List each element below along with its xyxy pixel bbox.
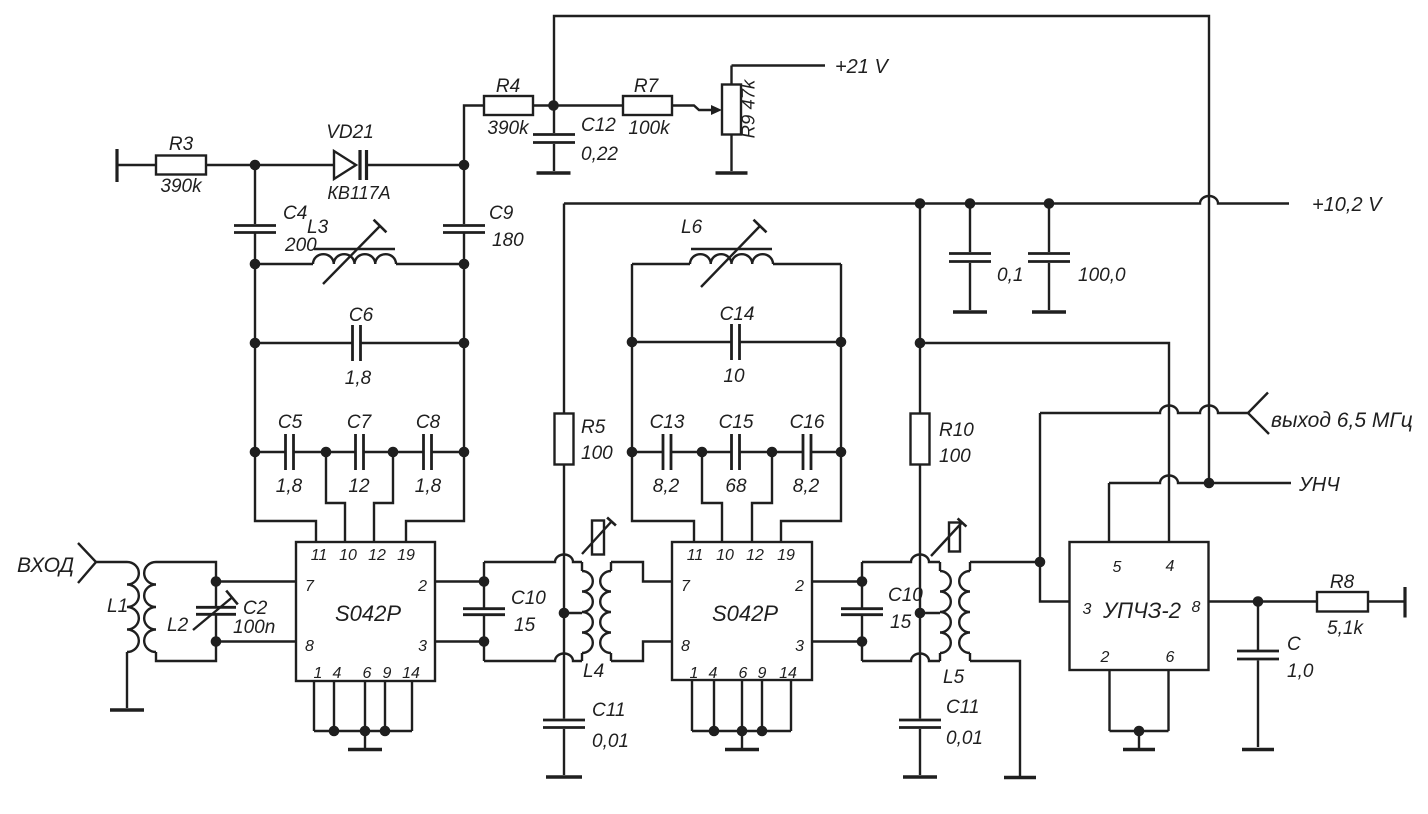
node — [627, 447, 638, 458]
ground — [546, 775, 582, 778]
svg-text:C16: C16 — [790, 412, 825, 433]
svg-text:7: 7 — [305, 578, 315, 595]
svg-text:8,2: 8,2 — [793, 476, 820, 497]
svg-text:C13: C13 — [650, 412, 685, 433]
wire — [255, 451, 285, 453]
svg-text:6: 6 — [739, 665, 748, 682]
node — [767, 447, 778, 458]
wire (to pin 7) — [216, 580, 296, 582]
wire — [463, 165, 465, 224]
svg-text:VD21: VD21 — [326, 122, 374, 143]
svg-text:C7: C7 — [347, 412, 373, 433]
svg-text:1,8: 1,8 — [415, 476, 442, 497]
node — [329, 726, 340, 737]
node — [1253, 596, 1264, 607]
svg-text:C8: C8 — [416, 412, 441, 433]
svg-text:2: 2 — [794, 578, 804, 595]
svg-text:1,8: 1,8 — [345, 368, 372, 389]
node — [915, 338, 926, 349]
node — [1204, 478, 1215, 489]
svg-text:68: 68 — [725, 476, 747, 497]
node — [250, 259, 261, 270]
svg-text:2: 2 — [417, 578, 427, 595]
wire — [862, 654, 940, 661]
svg-text:14: 14 — [402, 665, 420, 682]
svg-text:6: 6 — [363, 665, 372, 682]
node — [459, 447, 470, 458]
wire (to pin 10) — [702, 452, 722, 543]
svg-text:10: 10 — [716, 547, 734, 564]
wire — [564, 612, 582, 614]
wire — [672, 451, 732, 453]
svg-text:C9: C9 — [489, 203, 514, 224]
capacitor C4 — [234, 203, 317, 256]
node — [388, 447, 399, 458]
wire — [840, 264, 842, 452]
capacitor C11 (2nd) — [899, 613, 983, 775]
node — [857, 576, 868, 587]
wire — [970, 661, 1020, 776]
svg-text:8: 8 — [1192, 599, 1201, 616]
capacitor C5 — [276, 412, 303, 497]
svg-text:200: 200 — [284, 235, 317, 256]
wire — [812, 451, 842, 453]
capacitor C — [1237, 602, 1314, 748]
wire — [740, 451, 802, 453]
variable capacitor C2 — [193, 582, 275, 642]
wire — [396, 263, 464, 265]
terminal выход — [1248, 393, 1269, 435]
svg-text:4: 4 — [709, 665, 718, 682]
node — [836, 337, 847, 348]
svg-text:0,01: 0,01 — [946, 728, 983, 749]
svg-text:C4: C4 — [283, 203, 307, 224]
node — [250, 447, 261, 458]
wire (to pin 11) — [632, 452, 694, 543]
ground — [1123, 731, 1155, 750]
svg-text:1: 1 — [690, 665, 699, 682]
wire — [484, 555, 582, 563]
resistor R3 — [156, 134, 206, 197]
resistor R8 — [1317, 572, 1368, 639]
wire — [368, 164, 464, 166]
svg-text:100: 100 — [581, 443, 613, 464]
ground — [1032, 310, 1066, 313]
resistor R7 — [623, 76, 672, 139]
capacitor 0,1 — [949, 204, 1023, 311]
capacitor C10 — [463, 562, 546, 661]
svg-text:1,8: 1,8 — [276, 476, 303, 497]
wire (выход 6,5 МГц net) — [1040, 406, 1248, 562]
node — [321, 447, 332, 458]
label ВХОД — [17, 554, 74, 577]
svg-text:390k: 390k — [160, 176, 203, 197]
svg-text:6: 6 — [1166, 649, 1175, 666]
svg-text:R9 47k: R9 47k — [738, 78, 759, 138]
svg-text:10: 10 — [339, 547, 357, 564]
node — [250, 160, 261, 171]
ground — [953, 310, 987, 313]
svg-text:C5: C5 — [278, 412, 303, 433]
node — [459, 160, 470, 171]
svg-text:4: 4 — [333, 665, 342, 682]
resistor R10 — [911, 204, 975, 614]
label +10,2 V — [1312, 194, 1383, 216]
svg-text:C11: C11 — [946, 697, 979, 718]
label +21 V — [835, 56, 889, 78]
wire (to pin 12) — [752, 452, 772, 543]
svg-text:C14: C14 — [720, 304, 755, 325]
wire — [432, 451, 464, 453]
svg-text:8: 8 — [305, 638, 314, 655]
svg-text:15: 15 — [890, 612, 912, 633]
ground — [716, 171, 748, 174]
svg-text:R5: R5 — [581, 417, 606, 438]
transformer L4 primary — [582, 562, 593, 661]
wire — [463, 343, 465, 452]
svg-text:19: 19 — [397, 547, 415, 564]
wire — [255, 263, 313, 265]
capacitor C15 — [719, 412, 754, 497]
wire — [464, 106, 484, 166]
tuning core of L5 — [931, 518, 966, 556]
wire +21V — [732, 64, 826, 66]
capacitor C8 — [415, 412, 442, 497]
wire — [463, 234, 465, 265]
svg-text:10: 10 — [723, 366, 745, 387]
wire — [294, 451, 355, 453]
node — [709, 726, 720, 737]
wire (pins 2,6 bus) — [1110, 670, 1169, 731]
IC U2 S042P — [672, 542, 812, 682]
IC U3 УПЧЗ-2 — [1070, 542, 1209, 670]
potentiometer R9 47k — [722, 66, 759, 172]
svg-text:15: 15 — [514, 615, 536, 636]
capacitor C11 — [543, 613, 629, 775]
svg-text:C6: C6 — [349, 305, 374, 326]
svg-text:9: 9 — [383, 665, 392, 682]
wire — [812, 640, 862, 642]
svg-text:S042P: S042P — [335, 601, 401, 626]
wire — [484, 654, 582, 661]
capacitor C13 — [650, 412, 685, 497]
node — [459, 259, 470, 270]
node — [627, 337, 638, 348]
svg-text:12: 12 — [368, 547, 386, 564]
svg-text:0,1: 0,1 — [997, 265, 1023, 286]
capacitor C9 — [443, 203, 524, 251]
node — [836, 447, 847, 458]
svg-text:R10: R10 — [939, 420, 974, 441]
wire — [533, 104, 623, 106]
svg-text:5,1k: 5,1k — [1327, 618, 1364, 639]
svg-text:R3: R3 — [169, 134, 194, 155]
node — [1035, 557, 1046, 568]
wire — [435, 580, 484, 582]
svg-text:14: 14 — [779, 665, 797, 682]
svg-text:S042P: S042P — [712, 601, 778, 626]
inductor L6 (tunable) — [681, 217, 773, 287]
svg-text:C15: C15 — [719, 412, 754, 433]
inductor L1 — [107, 562, 139, 708]
terminal (input to R3) — [115, 149, 118, 182]
inductor L2 — [144, 562, 188, 652]
wire — [970, 561, 1040, 563]
terminal (R8 output) — [1403, 587, 1406, 618]
svg-text:100: 100 — [939, 446, 971, 467]
node — [965, 198, 976, 209]
wire — [862, 555, 940, 563]
wire (to pin 19) — [781, 452, 841, 543]
wire — [1368, 600, 1405, 602]
resistor R4 — [484, 76, 533, 139]
wire (AFC feedback line) — [554, 16, 1209, 483]
node — [211, 576, 222, 587]
ground — [725, 731, 759, 750]
svg-text:L1: L1 — [107, 596, 128, 617]
node — [459, 338, 470, 349]
svg-text:5: 5 — [1113, 559, 1122, 576]
node — [697, 447, 708, 458]
label выход 6,5 МГц — [1271, 409, 1413, 432]
transformer L4 secondary — [583, 562, 611, 682]
wire (УНЧ net) — [1109, 476, 1291, 543]
node — [1044, 198, 1055, 209]
ground — [537, 171, 571, 174]
svg-text:0,01: 0,01 — [592, 731, 629, 752]
wire — [812, 580, 862, 582]
svg-text:КВ117А: КВ117А — [327, 183, 390, 203]
ground — [903, 775, 937, 778]
node — [479, 576, 490, 587]
svg-text:3: 3 — [1083, 601, 1092, 618]
IC U1 S042P — [296, 542, 435, 682]
ground — [110, 708, 144, 711]
wire (to pin 4) — [920, 343, 1169, 542]
node — [548, 100, 559, 111]
wire — [463, 264, 465, 343]
power rail +10,2 V — [564, 196, 1289, 203]
svg-text:1: 1 — [314, 665, 323, 682]
node — [479, 636, 490, 647]
svg-text:L5: L5 — [943, 667, 965, 688]
svg-text:C2: C2 — [243, 598, 268, 619]
svg-text:4: 4 — [1166, 558, 1175, 575]
wire (to pin 8) — [216, 640, 296, 642]
svg-text:12: 12 — [746, 547, 764, 564]
svg-text:R4: R4 — [496, 76, 520, 97]
capacitor 100,0 — [1028, 204, 1126, 311]
varicap diode VD21 KB117A — [326, 122, 390, 203]
terminal ВХОД — [78, 543, 96, 583]
svg-text:100n: 100n — [233, 617, 275, 638]
svg-text:УНЧ: УНЧ — [1298, 474, 1340, 496]
wire (to pin 19) — [406, 452, 464, 543]
wire (pin 8 output) — [1209, 600, 1318, 602]
svg-text:11: 11 — [687, 547, 704, 564]
svg-text:L2: L2 — [167, 615, 189, 636]
wire (to pin 10) — [326, 452, 345, 543]
wire — [611, 562, 672, 582]
wire — [920, 612, 940, 614]
svg-text:180: 180 — [492, 230, 524, 251]
svg-text:100k: 100k — [628, 118, 671, 139]
wire — [117, 164, 156, 166]
svg-text:L6: L6 — [681, 217, 703, 238]
node — [380, 726, 391, 737]
svg-text:C10: C10 — [511, 588, 546, 609]
svg-text:C: C — [1287, 634, 1301, 655]
wire — [773, 263, 841, 265]
inductor L3 (tunable) — [307, 217, 396, 284]
svg-text:R8: R8 — [1330, 572, 1355, 593]
svg-text:R7: R7 — [634, 76, 660, 97]
capacitor C6 — [255, 305, 464, 389]
node (L5 centre tap) — [915, 608, 926, 619]
wire — [611, 642, 672, 662]
wire (to pin 11) — [255, 452, 316, 543]
svg-text:C12: C12 — [581, 115, 616, 136]
wire — [364, 451, 423, 453]
capacitor C12 — [533, 106, 618, 172]
svg-text:L3: L3 — [307, 217, 329, 238]
svg-text:11: 11 — [311, 547, 328, 564]
wire — [631, 264, 633, 452]
svg-text:3: 3 — [795, 638, 804, 655]
transformer L5 primary — [940, 562, 951, 661]
node (L4 centre tap) — [559, 608, 570, 619]
svg-text:+21 V: +21 V — [835, 56, 889, 78]
svg-text:8: 8 — [681, 638, 690, 655]
wire (pins 1,4,6,9,14 bus) — [314, 681, 412, 731]
ground — [1004, 776, 1036, 779]
node — [250, 338, 261, 349]
wire — [254, 264, 256, 343]
svg-text:1,0: 1,0 — [1287, 661, 1314, 682]
svg-text:9: 9 — [758, 665, 767, 682]
node — [757, 726, 768, 737]
svg-text:19: 19 — [777, 547, 795, 564]
ground — [1242, 748, 1274, 751]
tuning core of L4 — [582, 518, 616, 555]
node — [915, 198, 926, 209]
node — [211, 636, 222, 647]
svg-text:7: 7 — [681, 578, 691, 595]
svg-text:3: 3 — [418, 638, 427, 655]
wire — [206, 164, 334, 166]
wire — [96, 561, 127, 563]
node — [857, 636, 868, 647]
capacitor C14 — [632, 304, 841, 387]
transformer L5 secondary — [943, 562, 970, 688]
svg-text:100,0: 100,0 — [1078, 265, 1126, 286]
svg-text:C10: C10 — [888, 585, 923, 606]
wire (pins 1,4,6,9,14 bus) — [692, 680, 791, 731]
capacitor C16 — [790, 412, 825, 497]
svg-text:8,2: 8,2 — [653, 476, 680, 497]
svg-text:L4: L4 — [583, 661, 604, 682]
svg-text:C11: C11 — [592, 700, 625, 721]
wire — [632, 263, 690, 265]
svg-text:390k: 390k — [487, 118, 530, 139]
capacitor C7 — [347, 412, 373, 497]
wire (to pin 3) — [1040, 562, 1070, 602]
capacitor C10 (2nd) — [841, 562, 923, 661]
ground — [348, 731, 382, 750]
node — [1134, 726, 1145, 737]
svg-text:2: 2 — [1100, 649, 1110, 666]
wire — [156, 642, 216, 662]
wire — [254, 343, 256, 452]
label УНЧ — [1298, 474, 1340, 496]
svg-text:выход 6,5 МГц: выход 6,5 МГц — [1271, 409, 1413, 432]
wire (to pin 12) — [374, 452, 393, 543]
wire — [632, 451, 662, 453]
wiper arrow into R9 — [672, 105, 722, 115]
wire — [156, 562, 216, 582]
svg-text:+10,2 V: +10,2 V — [1312, 194, 1383, 216]
resistor R5 — [555, 204, 614, 614]
svg-text:12: 12 — [348, 476, 370, 497]
node — [737, 726, 748, 737]
node — [360, 726, 371, 737]
svg-text:ВХОД: ВХОД — [17, 554, 74, 577]
wire — [435, 640, 484, 642]
svg-text:0,22: 0,22 — [581, 144, 618, 165]
wire — [254, 234, 256, 265]
svg-text:УПЧЗ-2: УПЧЗ-2 — [1102, 598, 1181, 623]
wire — [254, 165, 256, 224]
